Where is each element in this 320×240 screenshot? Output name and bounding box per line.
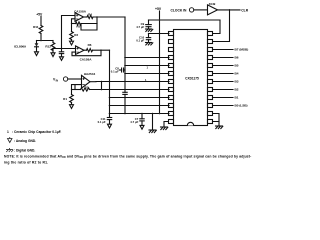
svg-text:ing the ratio of R2 to R1.: ing the ratio of R2 to R1.	[4, 160, 48, 164]
op-amp U1 CA158A	[75, 13, 84, 22]
svg-text:R3: R3	[74, 33, 78, 37]
capacitor C8	[120, 68, 125, 72]
ground digital (rail)	[149, 113, 156, 133]
capacitor C11	[107, 114, 111, 125]
ground analog (R3)	[70, 41, 74, 45]
svg-text:0.1 µF: 0.1 µF	[136, 39, 144, 43]
resistor R6 output U2	[84, 49, 110, 52]
svg-text:B5: B5	[235, 64, 239, 68]
wire U3 inverting input	[75, 85, 82, 90]
svg-text:R1: R1	[63, 97, 67, 101]
buffer U4 4049	[208, 5, 218, 15]
ground analog (R12)	[51, 53, 55, 57]
svg-text:B3: B3	[235, 80, 239, 84]
wire riser to op-amp U1	[62, 16, 76, 49]
ground digital (C9)	[146, 29, 153, 32]
legend digital gnd symbol	[6, 149, 13, 151]
svg-text:B0 (LSB): B0 (LSB)	[235, 104, 248, 108]
resistor R2 feedback U3	[72, 85, 170, 92]
wire feedback loop rectangle U1	[81, 24, 97, 31]
svg-text:R4: R4	[88, 13, 92, 17]
wire CLK to pin	[213, 10, 230, 42]
IC U5 CXD1175 body	[174, 30, 208, 126]
wire ground hook left pin 121.5	[164, 122, 169, 128]
ground digital (C10)	[146, 43, 153, 46]
wire node A bus2	[53, 48, 76, 50]
wire VIN to U3	[68, 78, 82, 80]
svg-text:B4: B4	[235, 72, 239, 76]
ground analog (C11)	[108, 124, 112, 128]
svg-text:R2: R2	[85, 85, 89, 89]
wire +5V top rail	[149, 19, 221, 21]
wire B5	[213, 65, 234, 67]
wire B1	[213, 97, 234, 99]
wire stub pin row 65.5	[124, 65, 126, 67]
wire stub pin row 97.5	[109, 97, 169, 99]
wire VRT rail vertical	[124, 17, 126, 92]
resistor R5 feedback U1	[72, 16, 98, 25]
wire rail to VDD pin right	[213, 20, 220, 34]
wire +5V riser bus	[159, 20, 161, 114]
wire ground bracket right	[213, 114, 220, 122]
svg-text:IN: IN	[56, 79, 59, 82]
terminal CLOCK IN	[189, 8, 193, 12]
svg-text:R12: R12	[45, 44, 51, 48]
op-amp U2 CA158A	[76, 46, 85, 55]
capacitor C10	[146, 34, 150, 43]
resistor R11	[39, 26, 43, 41]
wire bottom rail	[110, 113, 170, 115]
resistor R4 output U1	[84, 15, 126, 18]
svg-text:: Ceramic Chip Capacitor 0.1µ: : Ceramic Chip Capacitor 0.1µF.	[12, 130, 61, 134]
wire B3	[213, 81, 234, 83]
power +5V right	[159, 11, 161, 20]
svg-text:B1: B1	[235, 96, 239, 100]
legend analog gnd symbol	[8, 139, 13, 143]
ground analog (ICL8069)	[35, 52, 39, 56]
legend and notes	[4, 130, 251, 164]
wire U1 inverting input	[72, 19, 76, 24]
capacitor C7	[140, 113, 144, 126]
svg-text:B2: B2	[235, 88, 239, 92]
ground analog (C1)	[60, 57, 64, 61]
wire CLR	[218, 9, 241, 11]
svg-text:1: 1	[7, 130, 9, 134]
wire clock to buffer	[194, 9, 208, 11]
svg-text:NOTE: It is recommended that A: NOTE: It is recommended that AVDD and DV…	[4, 154, 251, 159]
svg-text:1: 1	[147, 66, 149, 70]
wire B6	[213, 57, 234, 59]
svg-text:B6: B6	[235, 56, 239, 60]
wire bus1	[37, 40, 54, 42]
wire VRB rail vertical	[109, 50, 111, 114]
svg-text:R5: R5	[76, 25, 80, 29]
wire B2	[213, 89, 234, 91]
svg-text:4.7 µF: 4.7 µF	[130, 120, 138, 124]
svg-text:CXD1175: CXD1175	[185, 76, 199, 80]
ground digital (left pin)	[161, 127, 168, 130]
diode ICL8069	[35, 41, 39, 52]
IC left pin boxes	[169, 32, 174, 124]
svg-text:0.1 µF: 0.1 µF	[111, 69, 119, 73]
ground analog (R1)	[70, 105, 74, 109]
svg-text:HA2544: HA2544	[84, 72, 96, 76]
svg-text:4049: 4049	[209, 2, 216, 6]
resistor R12	[51, 41, 55, 53]
wire B0	[213, 105, 234, 107]
svg-text:+5V: +5V	[155, 7, 162, 11]
capacitor C9	[146, 20, 152, 29]
terminal VIN	[63, 77, 67, 81]
wire feedback U2	[72, 50, 101, 56]
svg-text:: Digital GND.: : Digital GND.	[14, 149, 35, 153]
op-amp U3 HA2544	[82, 75, 91, 88]
svg-text:+5V: +5V	[36, 12, 43, 16]
IC right pin boxes	[208, 32, 213, 124]
svg-text:B7 (MSB): B7 (MSB)	[235, 48, 249, 52]
wire stub pin row 105.5	[109, 105, 169, 107]
resistor R1	[70, 90, 74, 105]
power +5V left	[40, 16, 42, 25]
svg-text:: Analog GND.: : Analog GND.	[14, 139, 36, 143]
wire B4	[213, 73, 234, 75]
svg-text:ICL8069: ICL8069	[14, 45, 26, 49]
resistor R3	[70, 24, 74, 42]
ground analog (C7)	[140, 125, 144, 129]
wire stub pin row 57.5	[124, 57, 169, 59]
svg-text:CA158A: CA158A	[74, 9, 87, 13]
svg-text:CLR: CLR	[241, 8, 248, 12]
svg-text:CLOCK IN: CLOCK IN	[171, 8, 188, 12]
wire B7	[213, 49, 234, 51]
capacitor C5 in VRT rail	[123, 92, 127, 114]
capacitor C1 (ref bypass)	[59, 49, 63, 57]
wire U3 output row	[90, 81, 169, 83]
wire U3 feedback riser	[101, 82, 103, 90]
wire stub pin row 73.5	[124, 73, 169, 75]
ground digital (right pins)	[216, 126, 223, 129]
svg-text:CA158A: CA158A	[80, 57, 93, 61]
svg-text:0.1 µF: 0.1 µF	[98, 120, 106, 124]
wire C10 row pin 33.5	[149, 33, 170, 35]
svg-text:R6: R6	[88, 43, 92, 47]
svg-text:4.7 µF: 4.7 µF	[136, 25, 144, 29]
svg-text:R11: R11	[33, 25, 39, 29]
